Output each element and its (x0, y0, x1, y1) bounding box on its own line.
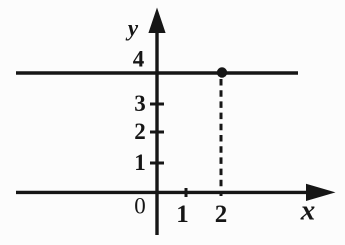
x-axis arrowhead (306, 184, 336, 201)
y tick 3 (150, 103, 164, 106)
x-axis (16, 191, 312, 194)
svg-text:x: x (300, 195, 316, 227)
svg-text:y: y (125, 16, 139, 41)
y-axis (155, 26, 158, 235)
svg-text:2: 2 (134, 119, 146, 144)
svg-text:1: 1 (176, 201, 189, 228)
x tick 1 (185, 188, 188, 197)
svg-text:3: 3 (134, 91, 146, 116)
dashed line x=2 (220, 79, 223, 196)
svg-text:0: 0 (134, 193, 146, 218)
y tick 1 (150, 162, 164, 165)
svg-text:2: 2 (215, 201, 228, 228)
y-axis arrowhead (148, 8, 165, 34)
y tick 2 (150, 131, 164, 134)
svg-text:4: 4 (133, 46, 145, 71)
point at (2,4) (217, 67, 227, 77)
line y=4 (16, 71, 298, 74)
svg-text:1: 1 (134, 150, 146, 175)
